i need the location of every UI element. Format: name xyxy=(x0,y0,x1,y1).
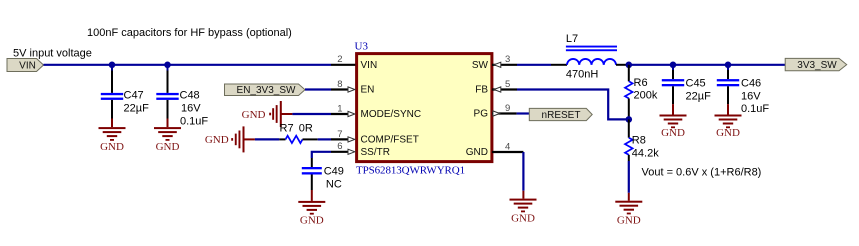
pin 3 SW xyxy=(472,54,517,71)
ground GND (C48) xyxy=(154,119,181,153)
pin 7 COMP/FSET xyxy=(331,129,419,146)
svg-text:EN_3V3_SW: EN_3V3_SW xyxy=(237,85,296,96)
svg-text:0.1uF: 0.1uF xyxy=(180,115,208,127)
junction node VIN/C48 xyxy=(164,62,171,69)
svg-text:GND: GND xyxy=(617,215,641,227)
svg-text:VIN: VIN xyxy=(19,60,36,71)
svg-text:16V: 16V xyxy=(181,103,201,115)
pin 2 VIN xyxy=(331,54,377,71)
wire COMP/FSET net (R7 to pin) xyxy=(318,138,331,140)
svg-text:R7: R7 xyxy=(280,122,294,134)
svg-text:C47: C47 xyxy=(124,90,144,102)
pin 8 EN xyxy=(331,79,374,96)
net label 3V3_SW xyxy=(785,58,847,71)
capacitor C45 xyxy=(662,65,711,104)
resistor R6 xyxy=(625,65,658,120)
resistor R8 xyxy=(625,119,659,161)
svg-text:GND: GND xyxy=(300,214,324,226)
svg-text:4: 4 xyxy=(505,141,510,152)
svg-text:SS/TR: SS/TR xyxy=(361,147,390,158)
svg-text:2: 2 xyxy=(337,54,342,65)
svg-text:COMP/FSET: COMP/FSET xyxy=(361,135,419,146)
svg-text:FB: FB xyxy=(475,85,488,96)
svg-text:GND: GND xyxy=(242,109,266,121)
power port GND (COMP/FSET) xyxy=(205,126,255,152)
svg-text:NC: NC xyxy=(326,179,342,191)
svg-text:EN: EN xyxy=(361,85,375,96)
inductor L7 xyxy=(551,33,629,80)
ground GND (C47) xyxy=(99,119,126,153)
capacitor C48 xyxy=(156,65,208,128)
net label nRESET xyxy=(529,108,592,121)
svg-text:C49: C49 xyxy=(324,166,344,178)
svg-text:100nF capacitors for HF bypass: 100nF capacitors for HF bypass (optional… xyxy=(87,27,292,39)
svg-text:1: 1 xyxy=(337,103,342,114)
junction node VIN/C47 xyxy=(109,62,116,69)
svg-text:16V: 16V xyxy=(741,90,761,102)
ground GND (C46) xyxy=(715,104,742,139)
wire SS/TR net xyxy=(312,152,331,158)
resistor R7 xyxy=(279,122,317,143)
wire FB net xyxy=(517,90,629,120)
svg-text:U3: U3 xyxy=(355,41,369,53)
wire SW to L7 xyxy=(517,64,551,66)
svg-text:C48: C48 xyxy=(180,90,200,102)
svg-text:470nH: 470nH xyxy=(566,68,598,80)
wire MODE/SYNC net xyxy=(292,113,331,115)
ground GND (C49) xyxy=(298,190,325,226)
ground GND (R8) xyxy=(615,193,642,227)
svg-text:22µF: 22µF xyxy=(124,103,150,115)
svg-text:PG: PG xyxy=(474,109,489,120)
svg-text:GND: GND xyxy=(661,127,685,139)
svg-text:R6: R6 xyxy=(634,77,648,89)
svg-text:MODE/SYNC: MODE/SYNC xyxy=(361,109,422,120)
svg-text:GND: GND xyxy=(205,134,229,146)
net label EN_3V3_SW xyxy=(225,84,306,96)
wire EN net xyxy=(305,88,331,90)
junction node FB/R6/R8 xyxy=(626,116,633,123)
pin 4 GND xyxy=(466,141,524,158)
junction node SW/R6 xyxy=(626,62,633,69)
svg-text:TPS62813QWRWYRQ1: TPS62813QWRWYRQ1 xyxy=(356,164,465,176)
svg-text:L7: L7 xyxy=(566,33,578,45)
svg-text:SW: SW xyxy=(472,60,489,71)
svg-text:5: 5 xyxy=(505,79,510,90)
svg-text:6: 6 xyxy=(337,141,342,152)
svg-text:200k: 200k xyxy=(634,90,658,102)
wire COMP/FSET net (GND to R7) xyxy=(255,138,279,140)
op-amp U1: IC U3 TPS62813 body xyxy=(355,41,492,177)
net label VIN xyxy=(7,59,44,72)
ground GND (pin 4) xyxy=(510,191,537,225)
svg-text:GND: GND xyxy=(716,127,740,139)
wire pin4 to ground xyxy=(522,152,524,191)
svg-text:9: 9 xyxy=(505,103,510,114)
svg-text:GND: GND xyxy=(511,212,535,224)
capacitor C46 xyxy=(717,65,770,115)
svg-text:3V3_SW: 3V3_SW xyxy=(797,60,837,71)
svg-text:0.1uF: 0.1uF xyxy=(741,103,769,115)
svg-text:5V input voltage: 5V input voltage xyxy=(13,48,92,60)
svg-text:Vout = 0.6V x (1+R6/R8): Vout = 0.6V x (1+R6/R8) xyxy=(642,167,762,179)
pin 5 FB xyxy=(475,79,517,96)
svg-text:VIN: VIN xyxy=(361,60,378,71)
svg-text:22µF: 22µF xyxy=(686,90,712,102)
svg-text:GND: GND xyxy=(466,147,488,158)
junction node rail/C46 xyxy=(725,62,732,69)
power port GND (MODE/SYNC) xyxy=(242,101,293,127)
svg-text:R8: R8 xyxy=(632,135,646,147)
svg-text:0R: 0R xyxy=(299,122,313,134)
svg-text:GND: GND xyxy=(156,141,180,153)
svg-text:GND: GND xyxy=(100,141,124,153)
wire R8 to ground xyxy=(628,161,630,193)
pin 1 MODE/SYNC xyxy=(331,103,421,120)
svg-text:nRESET: nRESET xyxy=(542,110,581,121)
pin 9 PG xyxy=(474,103,517,120)
svg-text:8: 8 xyxy=(337,79,342,90)
svg-text:44.2k: 44.2k xyxy=(632,147,659,159)
ground GND (C45) xyxy=(660,104,687,139)
wire VIN rail xyxy=(44,64,332,66)
capacitor C47 xyxy=(101,65,149,119)
svg-text:7: 7 xyxy=(337,129,342,140)
svg-text:3: 3 xyxy=(505,54,510,65)
capacitor C49 xyxy=(302,158,344,191)
svg-text:C46: C46 xyxy=(741,78,761,90)
svg-text:C45: C45 xyxy=(686,78,706,90)
pin 6 SS/TR xyxy=(331,141,390,158)
wire PG net xyxy=(517,112,530,114)
junction node rail/C45 xyxy=(670,62,677,69)
wire 3V3_SW rail xyxy=(629,64,786,66)
